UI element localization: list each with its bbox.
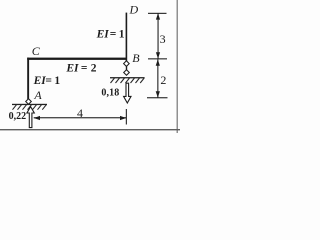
hinge diamond at B support (lower) — [124, 70, 130, 76]
dimension 4: horizontal line — [34, 117, 127, 118]
dimension 2: vertical line — [157, 59, 158, 97]
dimension 3: bottom tick at B level — [148, 58, 167, 59]
svg-text:B: B — [132, 51, 140, 65]
column B-D — [126, 13, 128, 61]
link segment below B — [126, 66, 127, 70]
table cell right border — [177, 0, 178, 133]
svg-text:4: 4 — [77, 106, 83, 120]
dimension 3: upper arrowhead — [156, 13, 160, 19]
hatching at A support — [13, 105, 47, 110]
dimension 2: upper arrowhead — [156, 59, 160, 65]
svg-text:2: 2 — [160, 73, 166, 87]
beam C-B — [27, 58, 127, 60]
hinge diamond at A — [26, 99, 32, 105]
svg-text:D: D — [129, 3, 139, 17]
svg-text:1: 1 — [54, 75, 60, 87]
dimension 4: left arrowhead — [34, 116, 40, 120]
svg-text:EI: EI — [33, 75, 47, 87]
table cell bottom border — [0, 129, 180, 130]
settlement arrow at A (outline, up) 0,22 — [27, 107, 34, 128]
dimension 3: top tick at D level — [148, 13, 167, 14]
svg-text:1: 1 — [119, 29, 125, 41]
column A-C — [27, 58, 29, 99]
svg-text:EI: EI — [65, 63, 79, 75]
svg-text:0,18: 0,18 — [101, 87, 119, 98]
dimension 2: lower arrowhead — [156, 91, 160, 97]
svg-text:=: = — [81, 63, 88, 75]
dimension 3: lower arrowhead — [156, 52, 160, 58]
svg-text:EI: EI — [96, 29, 110, 41]
svg-text:0,22: 0,22 — [9, 111, 27, 122]
svg-text:=: = — [110, 29, 117, 41]
svg-text:C: C — [32, 44, 41, 58]
svg-text:3: 3 — [160, 32, 166, 46]
ground line at B — [110, 77, 145, 78]
svg-text:A: A — [33, 88, 42, 102]
svg-text:2: 2 — [91, 63, 97, 75]
dimension 4: right arrowhead — [120, 116, 126, 120]
ground line at A — [12, 104, 47, 105]
svg-text:=: = — [45, 75, 52, 87]
settlement arrow at B (outline, down) 0,18 — [124, 83, 131, 103]
dimension 2: bottom tick — [147, 97, 168, 98]
hinge diamond at B (upper) — [124, 61, 130, 67]
dimension 3: vertical line — [158, 13, 159, 58]
hatching at B support — [111, 78, 145, 83]
dimension 4: right tick — [126, 109, 127, 125]
